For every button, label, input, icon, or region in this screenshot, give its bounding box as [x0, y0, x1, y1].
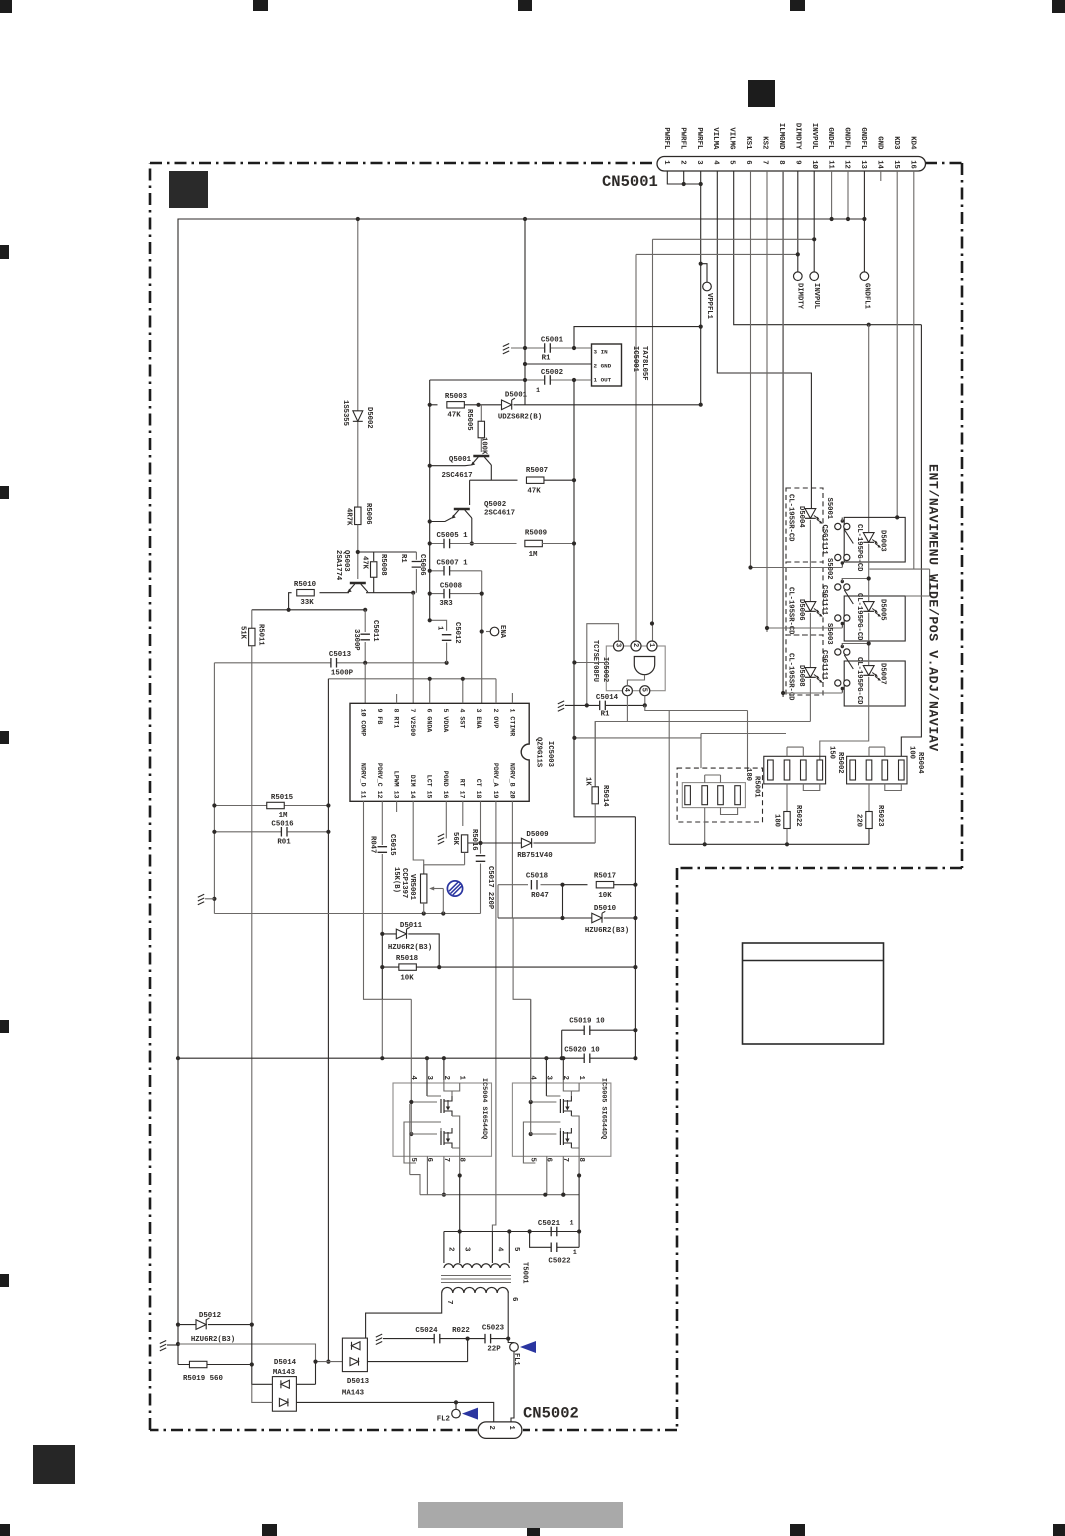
wire D5014 upper out	[296, 1362, 315, 1385]
transformer core	[441, 1276, 511, 1283]
capacitor C5014 and ground wire	[558, 701, 564, 711]
svg-text:5: 5	[640, 688, 648, 692]
wire KD4 into D5005 box	[905, 595, 929, 597]
R5001 element	[702, 786, 708, 805]
IC5005 internal wires	[546, 1080, 571, 1096]
svg-text:2SC4617: 2SC4617	[484, 510, 515, 518]
node VPPFL1	[701, 264, 707, 283]
wire IN riser to PWRFL	[574, 327, 701, 348]
wire left bus to ground	[213, 663, 215, 914]
svg-text:13: 13	[859, 160, 867, 169]
node INVPUL	[810, 272, 819, 281]
svg-text:INVPUL: INVPUL	[810, 123, 818, 150]
svg-text:10K: 10K	[400, 975, 414, 983]
svg-text:3: 3	[425, 1076, 433, 1081]
svg-text:D5011: D5011	[400, 922, 423, 930]
svg-text:NDRV_B 2Ø: NDRV_B 2Ø	[508, 763, 516, 799]
svg-text:R5004: R5004	[916, 752, 924, 774]
node GNDFL1	[860, 272, 869, 281]
capacitor C5001	[545, 343, 551, 353]
ground bus GNDFL pins 11-13	[178, 219, 864, 1325]
wire V2500 riser	[412, 593, 414, 704]
resistor R5009	[525, 540, 543, 546]
svg-text:C5022: C5022	[548, 1258, 570, 1266]
wire V2500 rail branch	[574, 734, 701, 738]
wire pin16 KD4	[870, 171, 930, 596]
R5004 brackets	[869, 747, 885, 756]
wire INVPUL to IC5002	[653, 239, 815, 641]
svg-text:QZ9G11S: QZ9G11S	[534, 737, 542, 768]
transistor Q5002 2SC4617	[454, 508, 470, 511]
svg-text:MA143: MA143	[273, 1369, 296, 1377]
svg-text:C5019 10: C5019 10	[569, 1018, 605, 1026]
IC5004 gate feed	[411, 999, 437, 1134]
R5002 element	[817, 760, 823, 780]
svg-text:CSG1111: CSG1111	[820, 585, 828, 616]
R5002 element	[784, 760, 790, 780]
IC5002 pin 1	[647, 641, 657, 651]
IC5005 fet lower	[559, 1131, 561, 1145]
wire to Q5002 base	[469, 480, 471, 505]
svg-text:D5008: D5008	[797, 665, 805, 687]
capacitor C5016	[214, 831, 328, 833]
svg-text:KD3: KD3	[892, 136, 900, 150]
svg-text:Q5003: Q5003	[342, 550, 350, 572]
svg-text:R047: R047	[531, 892, 549, 900]
svg-text:1: 1	[507, 1426, 515, 1431]
svg-text:4: 4	[529, 1076, 537, 1081]
LED D5003 CL-195PG-CD	[863, 533, 874, 543]
gate drive L wire IC5005	[513, 917, 531, 1102]
svg-text:R5001: R5001	[752, 776, 760, 798]
wire stub	[574, 662, 606, 664]
svg-text:9: 9	[793, 160, 801, 164]
capacitor C5008	[430, 593, 482, 595]
svg-text:GNDFL: GNDFL	[826, 127, 834, 150]
LED D5008 CL-195SR-CD	[805, 668, 816, 678]
svg-text:D5013: D5013	[347, 1378, 370, 1386]
svg-text:C5015: C5015	[388, 834, 396, 856]
svg-text:11: 11	[826, 160, 834, 169]
svg-text:R5018: R5018	[396, 955, 419, 963]
svg-text:FL2: FL2	[437, 1416, 450, 1424]
svg-text:R5008: R5008	[379, 554, 387, 576]
IC5004 lower pins	[427, 1156, 444, 1194]
svg-text:D5006: D5006	[797, 599, 805, 621]
svg-text:CN5002: CN5002	[523, 1405, 579, 1423]
wire D5013 lower out to R022 node	[367, 1339, 467, 1362]
wire pin9 DIMDTY	[797, 171, 799, 254]
wire PDRV riser to bus	[381, 999, 383, 1058]
svg-text:R022: R022	[452, 1327, 470, 1335]
diode D5009 RB751V40	[468, 842, 522, 844]
svg-text:7 V2500: 7 V2500	[409, 709, 416, 737]
svg-text:1: 1	[435, 626, 443, 631]
diode D5001 UDZS6R2(B)	[464, 404, 700, 406]
wire S5003 top tie to LED chain	[842, 643, 868, 645]
svg-text:180: 180	[744, 768, 752, 781]
dashed box CL-195SR-CD D5008	[786, 635, 823, 695]
svg-text:D5010: D5010	[594, 905, 617, 913]
svg-text:ENA: ENA	[498, 625, 506, 639]
dash-dot frame border	[150, 163, 962, 1430]
wire gray bus to D5013	[178, 1344, 342, 1362]
resistor R5022	[786, 784, 788, 812]
svg-text:HZU6R2(B3): HZU6R2(B3)	[585, 927, 629, 935]
resistor R5015	[214, 805, 328, 807]
wire pin3 bracket	[587, 624, 619, 706]
svg-text:NDRV_D 11: NDRV_D 11	[359, 763, 366, 799]
R022 node	[466, 1337, 470, 1341]
svg-text:1500P: 1500P	[331, 670, 354, 678]
svg-text:51K: 51K	[238, 626, 246, 640]
svg-text:4R7K: 4R7K	[344, 508, 352, 526]
svg-text:1: 1	[662, 160, 670, 165]
svg-text:Q5002: Q5002	[484, 501, 506, 509]
svg-text:R5019 560: R5019 560	[183, 1375, 223, 1383]
svg-text:R5010: R5010	[294, 581, 317, 589]
primary top bus	[444, 1231, 579, 1233]
svg-text:6 GNDA: 6 GNDA	[426, 709, 433, 733]
resistor R5010	[297, 590, 315, 596]
wire OUT rail left	[430, 379, 525, 381]
capacitor C5011	[364, 610, 366, 632]
black square marker top	[748, 80, 775, 107]
svg-text:3: 3	[462, 1247, 470, 1252]
svg-text:R5023: R5023	[876, 805, 884, 827]
svg-text:DIMDTY: DIMDTY	[793, 123, 801, 150]
svg-text:6: 6	[510, 1297, 518, 1302]
capacitor C5002	[545, 375, 551, 385]
svg-text:PWRFL: PWRFL	[695, 127, 703, 150]
svg-text:47K: 47K	[447, 412, 461, 420]
diode pack D5013 MA143	[342, 1338, 367, 1372]
svg-text:S5001: S5001	[825, 498, 833, 520]
LED column wires	[809, 520, 811, 601]
switch S5003 CSG1111	[835, 649, 841, 655]
svg-text:FL1: FL1	[512, 1353, 520, 1366]
svg-text:D5001: D5001	[505, 392, 528, 400]
svg-text:4: 4	[622, 688, 630, 692]
resistor R5007	[470, 479, 574, 481]
svg-text:R5006: R5006	[364, 503, 372, 525]
flag FL2 blue	[462, 1408, 478, 1420]
R5002 element	[768, 760, 774, 780]
svg-text:C5013: C5013	[329, 651, 352, 659]
R5004 element	[882, 760, 888, 780]
svg-text:R047: R047	[368, 836, 376, 853]
svg-text:56K: 56K	[451, 832, 459, 846]
wire Q5003 collector to IC	[366, 592, 413, 594]
capacitor C5024	[383, 1338, 468, 1340]
svg-text:7: 7	[761, 160, 769, 164]
svg-text:VPPFL1: VPPFL1	[705, 293, 713, 320]
svg-text:3 ENA: 3 ENA	[475, 709, 482, 729]
svg-text:2SA1774: 2SA1774	[334, 550, 342, 581]
box D5003	[844, 517, 905, 562]
svg-text:LPWM 13: LPWM 13	[392, 771, 399, 799]
IC IC5004 SI6544DQ	[393, 1083, 492, 1156]
IC5004 internal wires	[427, 1080, 452, 1096]
svg-text:C5008: C5008	[440, 583, 463, 591]
svg-text:CSG1111: CSG1111	[820, 650, 828, 681]
svg-text:INVPUL: INVPUL	[812, 283, 820, 309]
svg-text:7: 7	[445, 1300, 453, 1304]
wire pin12	[847, 171, 849, 219]
IC5002 pin 5	[640, 686, 650, 696]
wire FET outputs to transformer	[460, 1176, 579, 1264]
dashed box CL-195SR-CD D5006	[786, 562, 823, 635]
svg-text:12: 12	[843, 160, 851, 169]
wire pin10 INVPUL	[813, 171, 815, 239]
transformer T5001 pins	[444, 1232, 509, 1264]
IC5005 supply pins	[546, 1058, 563, 1096]
svg-text:1S5355: 1S5355	[341, 400, 349, 426]
svg-text:GNDFL1: GNDFL1	[862, 283, 870, 310]
resistor R5008	[358, 552, 417, 561]
svg-text:C5023: C5023	[482, 1325, 505, 1333]
svg-text:1: 1	[569, 1220, 573, 1228]
LED D5005 CL-195PG-CD	[863, 602, 874, 612]
wire left power rail	[429, 380, 431, 620]
wire CT / C5017	[480, 801, 482, 853]
svg-text:5 VDDA: 5 VDDA	[442, 709, 449, 733]
svg-text:1Ø: 1Ø	[810, 160, 819, 169]
wire Q5001 emitter to rail	[430, 464, 471, 467]
svg-text:CT 18: CT 18	[475, 779, 482, 799]
wire S5003 bottom to key line	[783, 692, 842, 693]
resistor R5005	[480, 405, 482, 422]
svg-text:KD4: KD4	[908, 136, 916, 150]
diode pack D5014 MA143	[272, 1377, 296, 1412]
svg-text:R5011: R5011	[256, 624, 264, 646]
wire C-bus vertical	[524, 219, 526, 405]
svg-text:CL-195PG-CD: CL-195PG-CD	[855, 593, 863, 641]
svg-text:6: 6	[544, 1158, 552, 1163]
wire FB riser	[364, 663, 366, 704]
capacitor C5006	[415, 552, 417, 560]
svg-text:LCT 15: LCT 15	[426, 775, 433, 799]
LED D5007 CL-195PG-CD	[863, 666, 874, 676]
node FL2	[455, 1402, 457, 1409]
capacitor C5021 1	[509, 1231, 579, 1233]
ground	[376, 1334, 382, 1344]
capacitor C5015	[381, 801, 383, 845]
svg-text:6: 6	[744, 160, 752, 164]
gray footer bar	[418, 1502, 623, 1528]
note box	[743, 943, 884, 1044]
wire pin4 to R5014	[595, 696, 627, 787]
svg-text:180: 180	[772, 814, 780, 827]
wire pin4 VILMA down to LED column	[717, 171, 811, 509]
IC5004 fet lower	[440, 1131, 442, 1145]
svg-text:2: 2	[446, 1247, 454, 1251]
IC5002 pin 3	[614, 641, 624, 651]
svg-text:UDZS6R2(B): UDZS6R2(B)	[498, 414, 542, 422]
svg-text:100: 100	[907, 746, 915, 759]
svg-text:2 OVP: 2 OVP	[492, 709, 499, 729]
capacitor C5022 1	[530, 1232, 580, 1248]
svg-text:R5014: R5014	[601, 785, 609, 807]
svg-text:3R3: 3R3	[439, 600, 453, 608]
black square marker inside border	[169, 171, 208, 208]
svg-text:1M: 1M	[529, 551, 538, 559]
svg-text:D5003: D5003	[878, 530, 886, 552]
svg-text:IC5002: IC5002	[601, 657, 609, 682]
svg-text:D5009: D5009	[526, 831, 548, 839]
wire CTIMR stub	[511, 693, 513, 703]
wire IN	[511, 347, 592, 349]
resistor network R5002 150	[764, 756, 826, 784]
svg-text:PWRFL: PWRFL	[678, 127, 686, 150]
wire PWRFL pins 1-3 tie	[667, 171, 700, 184]
svg-text:C5006: C5006	[418, 554, 426, 576]
wire Q5002 emitter to rail	[430, 518, 452, 522]
svg-text:PDRV_C 12: PDRV_C 12	[376, 763, 383, 799]
svg-text:GND: GND	[876, 136, 884, 150]
svg-text:150: 150	[827, 746, 835, 759]
wire pin7 to D5013	[366, 1293, 442, 1338]
svg-text:2: 2	[561, 1076, 569, 1080]
svg-text:2 GND: 2 GND	[594, 363, 612, 370]
R5004 element	[850, 760, 856, 780]
svg-text:8: 8	[458, 1158, 466, 1163]
IC5003 pin8 stub	[396, 694, 398, 703]
wire Q5001 collector	[490, 465, 492, 480]
resistor R5016	[462, 801, 464, 826]
svg-text:R1: R1	[399, 554, 407, 563]
wire pin6 KS1	[750, 171, 752, 568]
svg-text:CL-195SR-CD: CL-195SR-CD	[786, 653, 794, 701]
wire PGND ground	[445, 801, 447, 838]
wire left loop down	[327, 679, 329, 1362]
svg-text:5: 5	[409, 1158, 417, 1163]
IC5005 lower pins	[547, 1156, 564, 1194]
svg-text:R5009: R5009	[525, 530, 547, 538]
wire R5001 bottom tap	[704, 808, 706, 845]
pin14 stub	[880, 171, 882, 181]
diode D5011 HZU6R2(B3)	[382, 934, 439, 967]
svg-text:S5002: S5002	[825, 558, 833, 580]
wire pin8 ILMGND	[782, 171, 784, 697]
wire pin11	[831, 171, 833, 219]
svg-text:8 RT1: 8 RT1	[392, 709, 399, 729]
svg-text:D5005: D5005	[878, 599, 886, 621]
svg-text:R1: R1	[542, 355, 551, 363]
wire DIM to VR5001	[413, 801, 424, 874]
transformer T5001 primary winding	[444, 1264, 509, 1268]
svg-text:R5016: R5016	[470, 829, 478, 851]
wire FL2 feed	[296, 1402, 493, 1422]
R5001 brackets	[705, 775, 721, 783]
svg-text:47K: 47K	[527, 488, 541, 496]
LED D5006 CL-195SR-CD	[805, 602, 816, 612]
wire pin5 VILMG	[734, 171, 922, 325]
svg-text:ENT/NAVIMENU WIDE/POS V.ADJ/NA: ENT/NAVIMENU WIDE/POS V.ADJ/NAVIAV	[926, 464, 941, 752]
wire D5014 lower row	[252, 1384, 273, 1402]
node ENA	[486, 631, 490, 633]
svg-text:7: 7	[561, 1158, 569, 1162]
R5001 element	[718, 786, 724, 805]
svg-text:C5012: C5012	[453, 622, 461, 644]
wire pin15 KD3	[896, 171, 898, 517]
IC5005 fet upper	[559, 1099, 561, 1113]
AND gate IC5002 TC7SET08FU	[606, 646, 665, 691]
svg-text:C5021: C5021	[538, 1220, 561, 1228]
wire LPWM stub	[396, 801, 398, 812]
wire Q5002 collector	[471, 518, 473, 544]
svg-text:16: 16	[908, 160, 916, 169]
svg-text:PGND 16: PGND 16	[442, 771, 449, 799]
svg-text:CL-195SR-CD: CL-195SR-CD	[786, 494, 794, 542]
svg-text:8: 8	[777, 160, 785, 164]
resistor R5018	[382, 966, 635, 968]
svg-text:3300P: 3300P	[352, 629, 360, 651]
svg-text:RB751V40: RB751V40	[517, 852, 553, 860]
diode D5010 HZU6R2(B3)	[498, 917, 635, 919]
svg-text:5: 5	[529, 1158, 537, 1163]
svg-text:Q5001: Q5001	[449, 456, 472, 464]
R5004 element	[899, 760, 905, 780]
svg-text:RT 17: RT 17	[459, 779, 466, 799]
svg-text:1 CTIMR: 1 CTIMR	[508, 709, 515, 737]
resistor network R5001 180 (dashed)	[677, 768, 762, 822]
network ground bus	[669, 843, 869, 845]
svg-text:CL-195PG-CD: CL-195PG-CD	[855, 524, 863, 572]
svg-text:2SC4617: 2SC4617	[441, 472, 472, 480]
svg-text:5: 5	[512, 1247, 520, 1252]
connector CN5002	[478, 1422, 522, 1439]
return wires to resistor networks	[645, 705, 669, 844]
svg-text:5: 5	[728, 160, 736, 164]
svg-text:C5017 220P: C5017 220P	[486, 866, 494, 910]
wire +5V rail down right side	[574, 380, 635, 817]
svg-text:C5014: C5014	[596, 694, 619, 702]
wire pin6 down	[507, 1293, 509, 1339]
svg-text:220: 220	[854, 814, 862, 827]
svg-text:PDRV_A 19: PDRV_A 19	[492, 763, 499, 799]
svg-text:D5014: D5014	[274, 1359, 297, 1367]
svg-text:KS1: KS1	[744, 136, 752, 150]
IC IC5003 QZ9G11S	[350, 703, 529, 801]
svg-text:3 IN: 3 IN	[594, 349, 609, 356]
svg-text:R5007: R5007	[526, 467, 548, 475]
wire right rail down	[634, 817, 636, 1058]
svg-text:KS2: KS2	[761, 136, 769, 149]
svg-text:9 FB: 9 FB	[376, 709, 383, 725]
wire S5002 top	[841, 578, 843, 582]
svg-text:4: 4	[495, 1247, 503, 1252]
R5001 element	[735, 786, 741, 805]
wire C5018 row	[498, 885, 563, 918]
regulator IC5001 TA78L05F	[592, 344, 622, 386]
svg-text:1: 1	[458, 1076, 466, 1081]
svg-text:C5011: C5011	[371, 620, 379, 642]
R5001 element	[685, 786, 691, 805]
svg-text:R01: R01	[277, 839, 291, 847]
ground	[160, 1341, 166, 1351]
gate bottom bus	[410, 1104, 579, 1195]
svg-text:R5017: R5017	[594, 873, 616, 881]
wire lower gray bus	[214, 913, 480, 915]
wire pin3 PWRFL down	[700, 171, 702, 405]
wire GND pin	[525, 363, 592, 365]
svg-text:IC5004 SI6544DQ: IC5004 SI6544DQ	[480, 1078, 488, 1139]
resistor network R5004 100	[847, 756, 907, 784]
svg-text:C5018: C5018	[526, 873, 549, 881]
svg-text:VILMG: VILMG	[728, 127, 736, 150]
svg-text:1Ø COMP: 1Ø COMP	[359, 709, 367, 737]
